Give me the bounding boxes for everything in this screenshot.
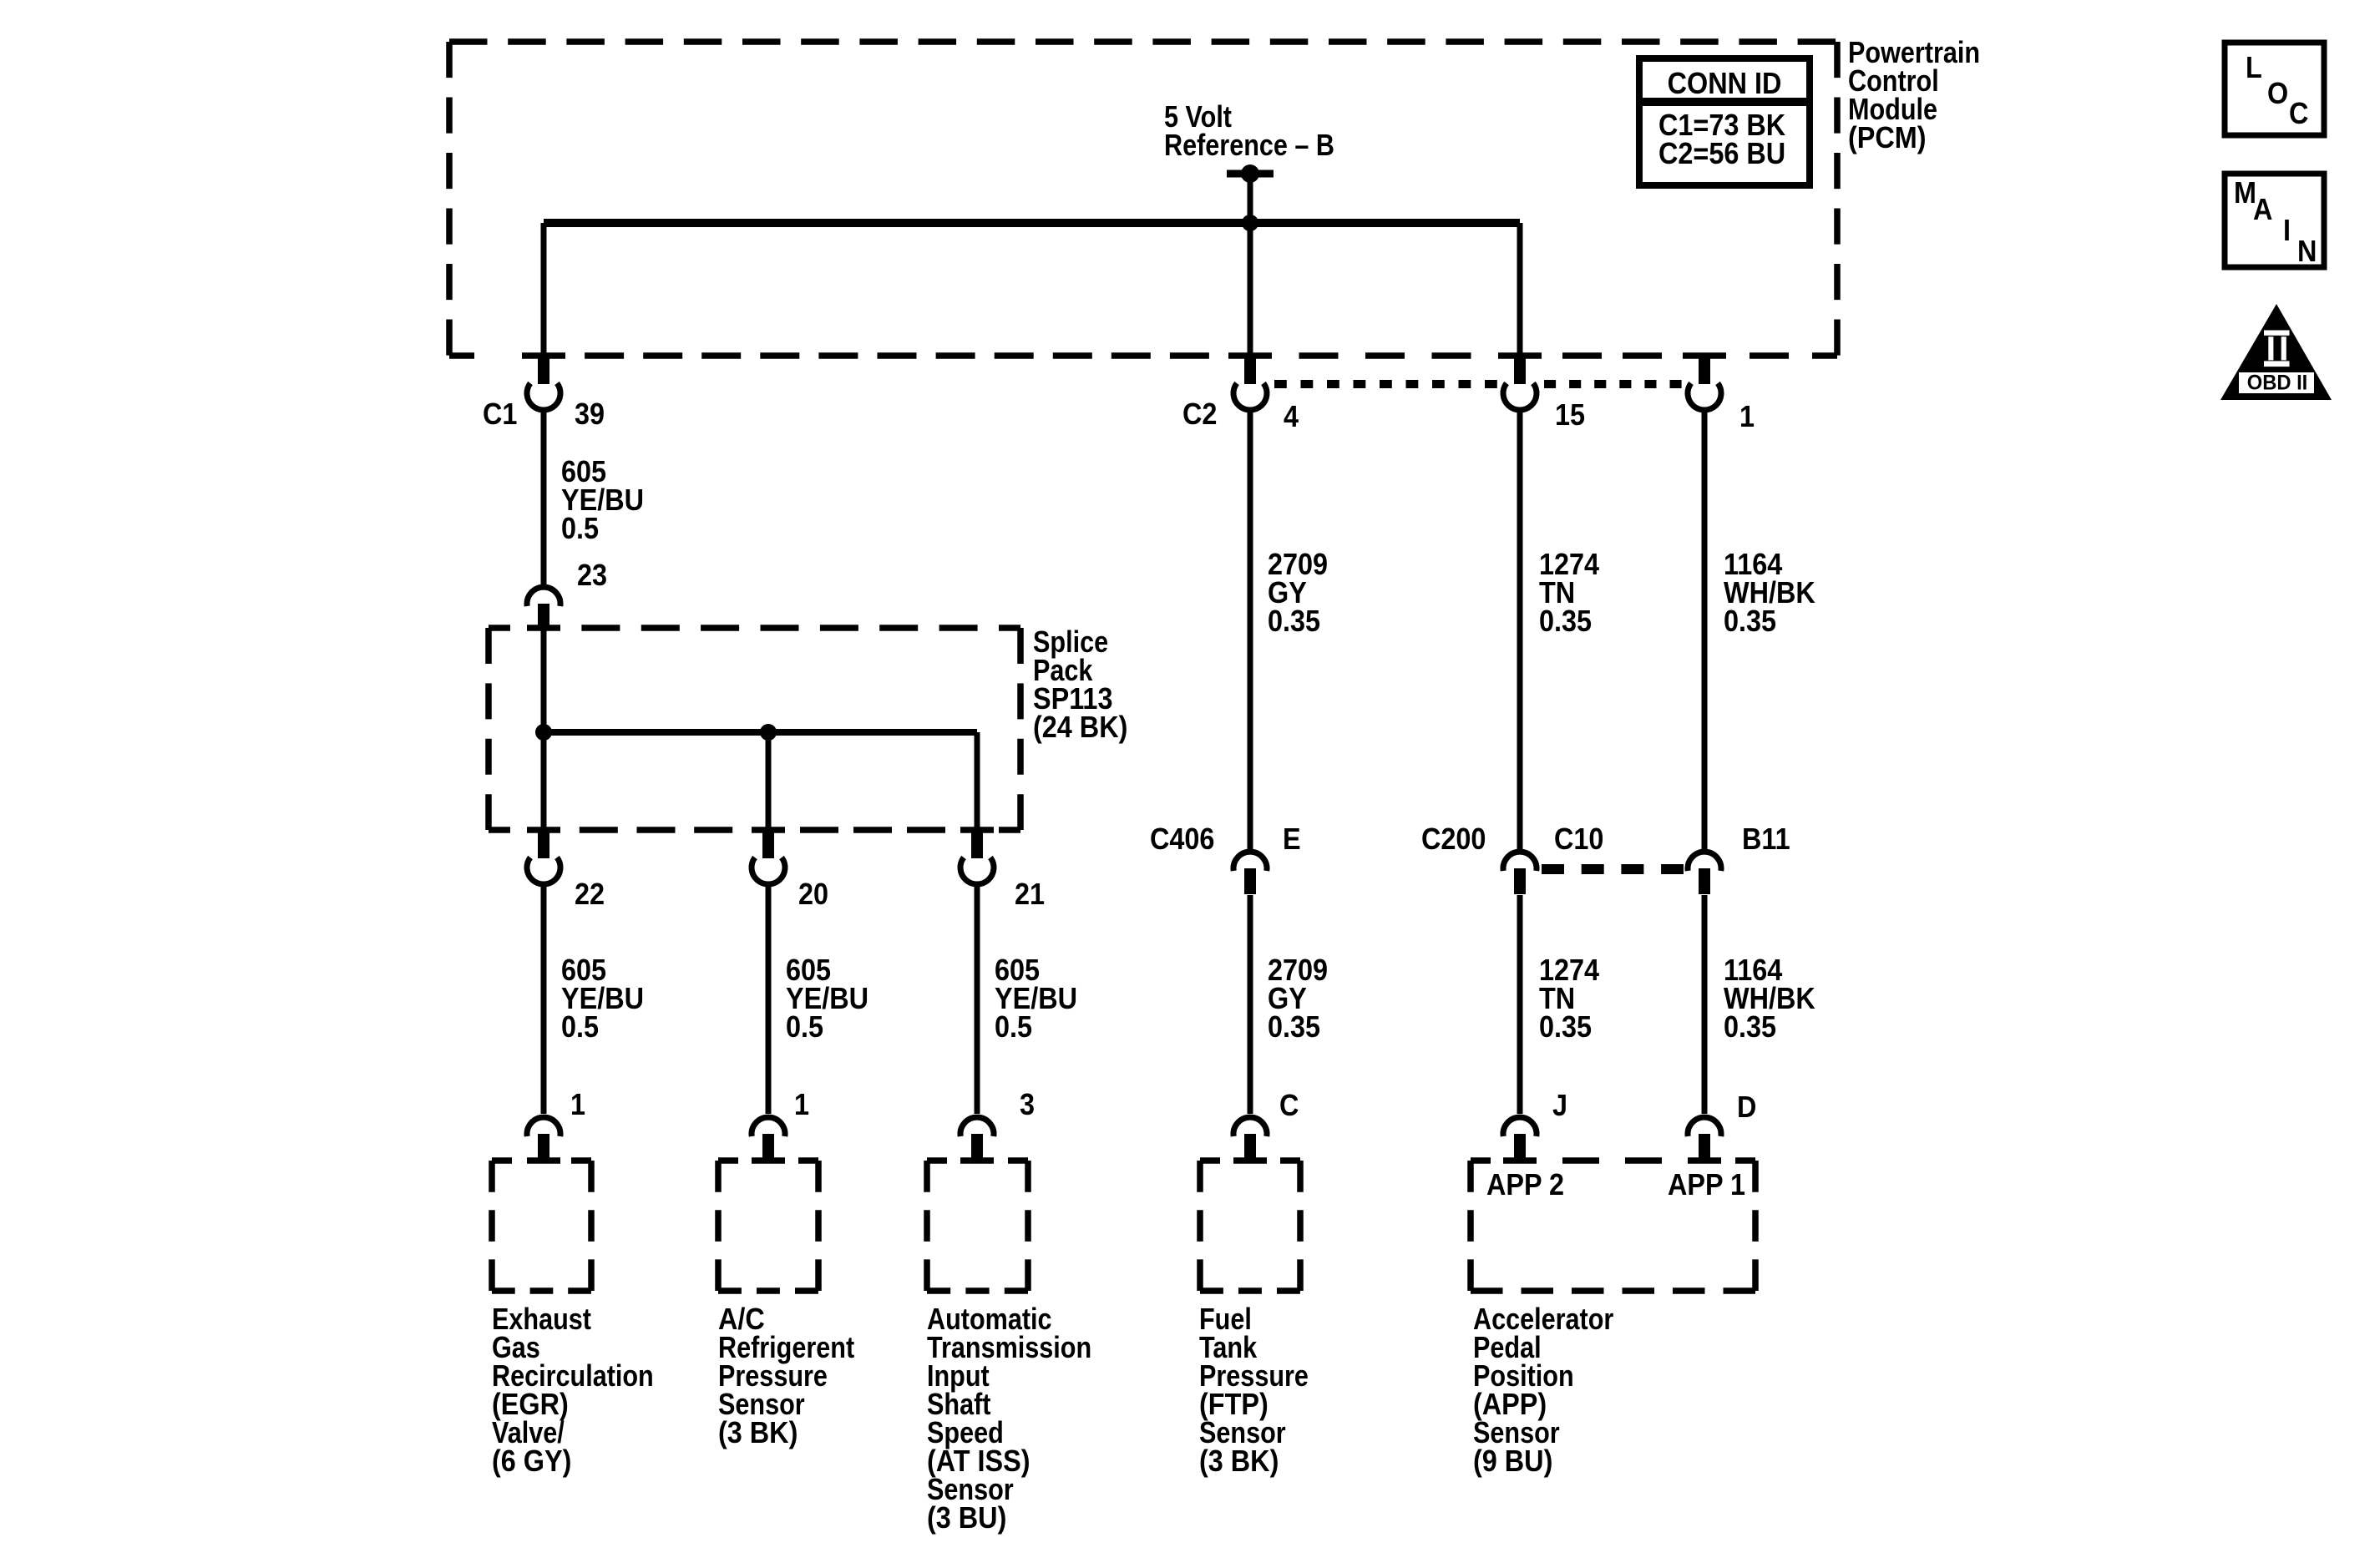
svg-text:C: C	[1279, 1089, 1299, 1122]
connector pin C2 pin 4	[1233, 353, 1267, 410]
wire to C1 pin 39	[541, 223, 547, 354]
LOC symbol	[2225, 43, 2324, 135]
label wire 605 YE/BU 0.5	[561, 954, 644, 1044]
junction	[760, 724, 777, 741]
svg-text:APP 2: APP 2	[1486, 1168, 1564, 1201]
label Fuel Tank Pressure (FTP) Sensor (3 BK)	[1199, 1303, 1309, 1479]
wire into splice	[541, 626, 547, 830]
label wire 1274 TN 0.35	[1539, 954, 1599, 1044]
label wire 1274 TN 0.35	[1539, 548, 1599, 638]
connector C200 pin B11	[1688, 852, 1721, 894]
svg-text:I: I	[2283, 214, 2291, 247]
FTP Sensor dashed box	[1200, 1157, 1300, 1291]
svg-text:N: N	[2297, 235, 2317, 268]
connector APP pin D	[1688, 1117, 1721, 1161]
svg-text:20: 20	[798, 878, 828, 911]
wire 605 YE/BU	[766, 887, 772, 1114]
label A/C Refrigerent Pressure Sensor (3 BK)	[718, 1303, 854, 1449]
svg-text:C2=56 BU: C2=56 BU	[1658, 137, 1785, 170]
connector C200 face (dashed)	[1542, 864, 1684, 874]
svg-text:22: 22	[575, 878, 605, 911]
connector pin 20 (splice pack)	[752, 827, 785, 884]
svg-text:3: 3	[1020, 1088, 1035, 1121]
label wire 2709 GY 0.35	[1268, 954, 1328, 1044]
svg-text:0.35: 0.35	[1724, 604, 1776, 638]
PCM label	[1848, 37, 1980, 155]
label Splice Pack SP113 (24 BK)	[1033, 626, 1127, 745]
svg-text:C1: C1	[483, 397, 517, 431]
svg-text:C2: C2	[1182, 397, 1217, 431]
A/C Refrigerent Pressure Sensor dashed box	[718, 1157, 818, 1291]
wire to pin 21	[975, 732, 980, 830]
svg-text:4: 4	[1284, 400, 1299, 433]
wire from PCM pin	[1517, 412, 1523, 849]
svg-text:(6 GY): (6 GY)	[492, 1444, 571, 1478]
splice bus SP113	[544, 729, 977, 736]
svg-text:B11: B11	[1742, 822, 1790, 856]
svg-text:C406: C406	[1150, 822, 1214, 856]
label Accelerator Pedal Position (APP) Sensor (9 BU)	[1473, 1303, 1613, 1479]
svg-text:J: J	[1552, 1089, 1567, 1122]
svg-text:1: 1	[1739, 400, 1755, 433]
svg-text:0.35: 0.35	[1539, 604, 1592, 638]
label wire 1164 WH/BK 0.35	[1724, 954, 1815, 1044]
label wire 2709 GY 0.35	[1268, 548, 1328, 638]
svg-text:0.35: 0.35	[1268, 1010, 1320, 1044]
svg-text:0.35: 0.35	[1724, 1010, 1776, 1044]
svg-text:C200: C200	[1421, 822, 1486, 856]
EGR Valve dashed box	[492, 1157, 591, 1291]
svg-text:D: D	[1737, 1090, 1756, 1124]
connector ATISS pin 3	[960, 1117, 994, 1161]
svg-text:0.5: 0.5	[786, 1010, 823, 1044]
svg-text:C: C	[2289, 97, 2308, 130]
label wire 605 YE/BU 0.5	[561, 455, 644, 545]
connector C406 pin E	[1233, 852, 1267, 894]
svg-text:OBD II: OBD II	[2247, 372, 2308, 395]
svg-text:0.35: 0.35	[1539, 1010, 1592, 1044]
svg-text:0.35: 0.35	[1268, 604, 1320, 638]
junction	[535, 724, 552, 741]
wire	[1248, 895, 1253, 1114]
wire to pin 20	[766, 732, 772, 830]
svg-text:A: A	[2253, 193, 2272, 226]
svg-text:0.5: 0.5	[561, 1010, 599, 1044]
AT ISS Sensor dashed box	[927, 1157, 1028, 1291]
Powertrain Control Module (PCM) dashed box	[449, 38, 1837, 45]
connector pin C2 pin 15	[1503, 353, 1537, 410]
svg-text:0.5: 0.5	[561, 512, 599, 545]
label wire 605 YE/BU 0.5	[995, 954, 1077, 1044]
connector A/C pin 1	[752, 1117, 785, 1161]
svg-text:23: 23	[577, 559, 607, 592]
wire 605 YE/BU	[541, 887, 547, 1114]
node: 5 Volt Reference - B	[1164, 101, 1334, 223]
Splice Pack SP113 dashed box	[489, 625, 510, 631]
CONN ID table	[1639, 58, 1810, 185]
svg-text:1: 1	[794, 1088, 809, 1121]
wire 605 YE/BU from pin 39	[541, 412, 547, 584]
connector pin C2 pin 1	[1688, 353, 1721, 410]
wire to C2 pin 4	[1248, 223, 1253, 354]
label wire 1164 WH/BK 0.35	[1724, 548, 1815, 638]
svg-text:0.5: 0.5	[995, 1010, 1032, 1044]
label Exhaust Gas Recirculation (EGR) Valve (6 GY)	[492, 1303, 654, 1479]
svg-text:21: 21	[1015, 878, 1045, 911]
wire from PCM pin	[1702, 412, 1708, 849]
APP Sensor dashed box	[1471, 1157, 1755, 1291]
connector C2 face (dotted)	[1274, 380, 1497, 388]
svg-text:(24 BK): (24 BK)	[1033, 711, 1127, 744]
svg-text:15: 15	[1555, 398, 1585, 432]
svg-text:(3 BU): (3 BU)	[927, 1501, 1006, 1535]
connector pin C1 pin 39	[527, 353, 560, 410]
svg-text:APP 1: APP 1	[1668, 1168, 1745, 1201]
svg-text:39: 39	[575, 397, 605, 431]
junction	[1242, 215, 1258, 231]
svg-text:O: O	[2267, 77, 2288, 110]
wire to C2 pin 15	[1517, 223, 1523, 354]
connector FTP pin C	[1233, 1117, 1267, 1161]
label AT ISS Sensor (3 BU)	[927, 1303, 1091, 1535]
wire from PCM pin	[1248, 412, 1253, 849]
wire	[1702, 895, 1708, 1114]
wire: 5V reference bus inside PCM	[544, 219, 1520, 227]
OBD II symbol	[2220, 304, 2332, 400]
wire	[1517, 895, 1523, 1114]
svg-text:Reference – B: Reference – B	[1164, 129, 1334, 163]
connector pin 23	[527, 587, 560, 629]
MAIN symbol	[2225, 174, 2324, 268]
svg-text:L: L	[2246, 51, 2262, 84]
connector pin 21 (splice pack)	[960, 827, 994, 884]
svg-text:E: E	[1283, 822, 1301, 856]
wire 605 YE/BU	[975, 887, 980, 1114]
svg-text:(9 BU): (9 BU)	[1473, 1444, 1552, 1478]
label wire 605 YE/BU 0.5	[786, 954, 868, 1044]
svg-text:CONN ID: CONN ID	[1668, 67, 1782, 100]
connector EGR pin 1	[527, 1117, 560, 1161]
connector C200 pin C10	[1503, 852, 1537, 894]
connector pin 22 (splice pack)	[527, 827, 560, 884]
svg-text:1: 1	[570, 1088, 585, 1121]
svg-text:(3 BK): (3 BK)	[718, 1416, 798, 1449]
svg-text:C10: C10	[1554, 822, 1603, 856]
connector APP pin J	[1503, 1117, 1537, 1161]
svg-text:(PCM): (PCM)	[1848, 121, 1927, 154]
svg-text:(3 BK): (3 BK)	[1199, 1444, 1279, 1478]
